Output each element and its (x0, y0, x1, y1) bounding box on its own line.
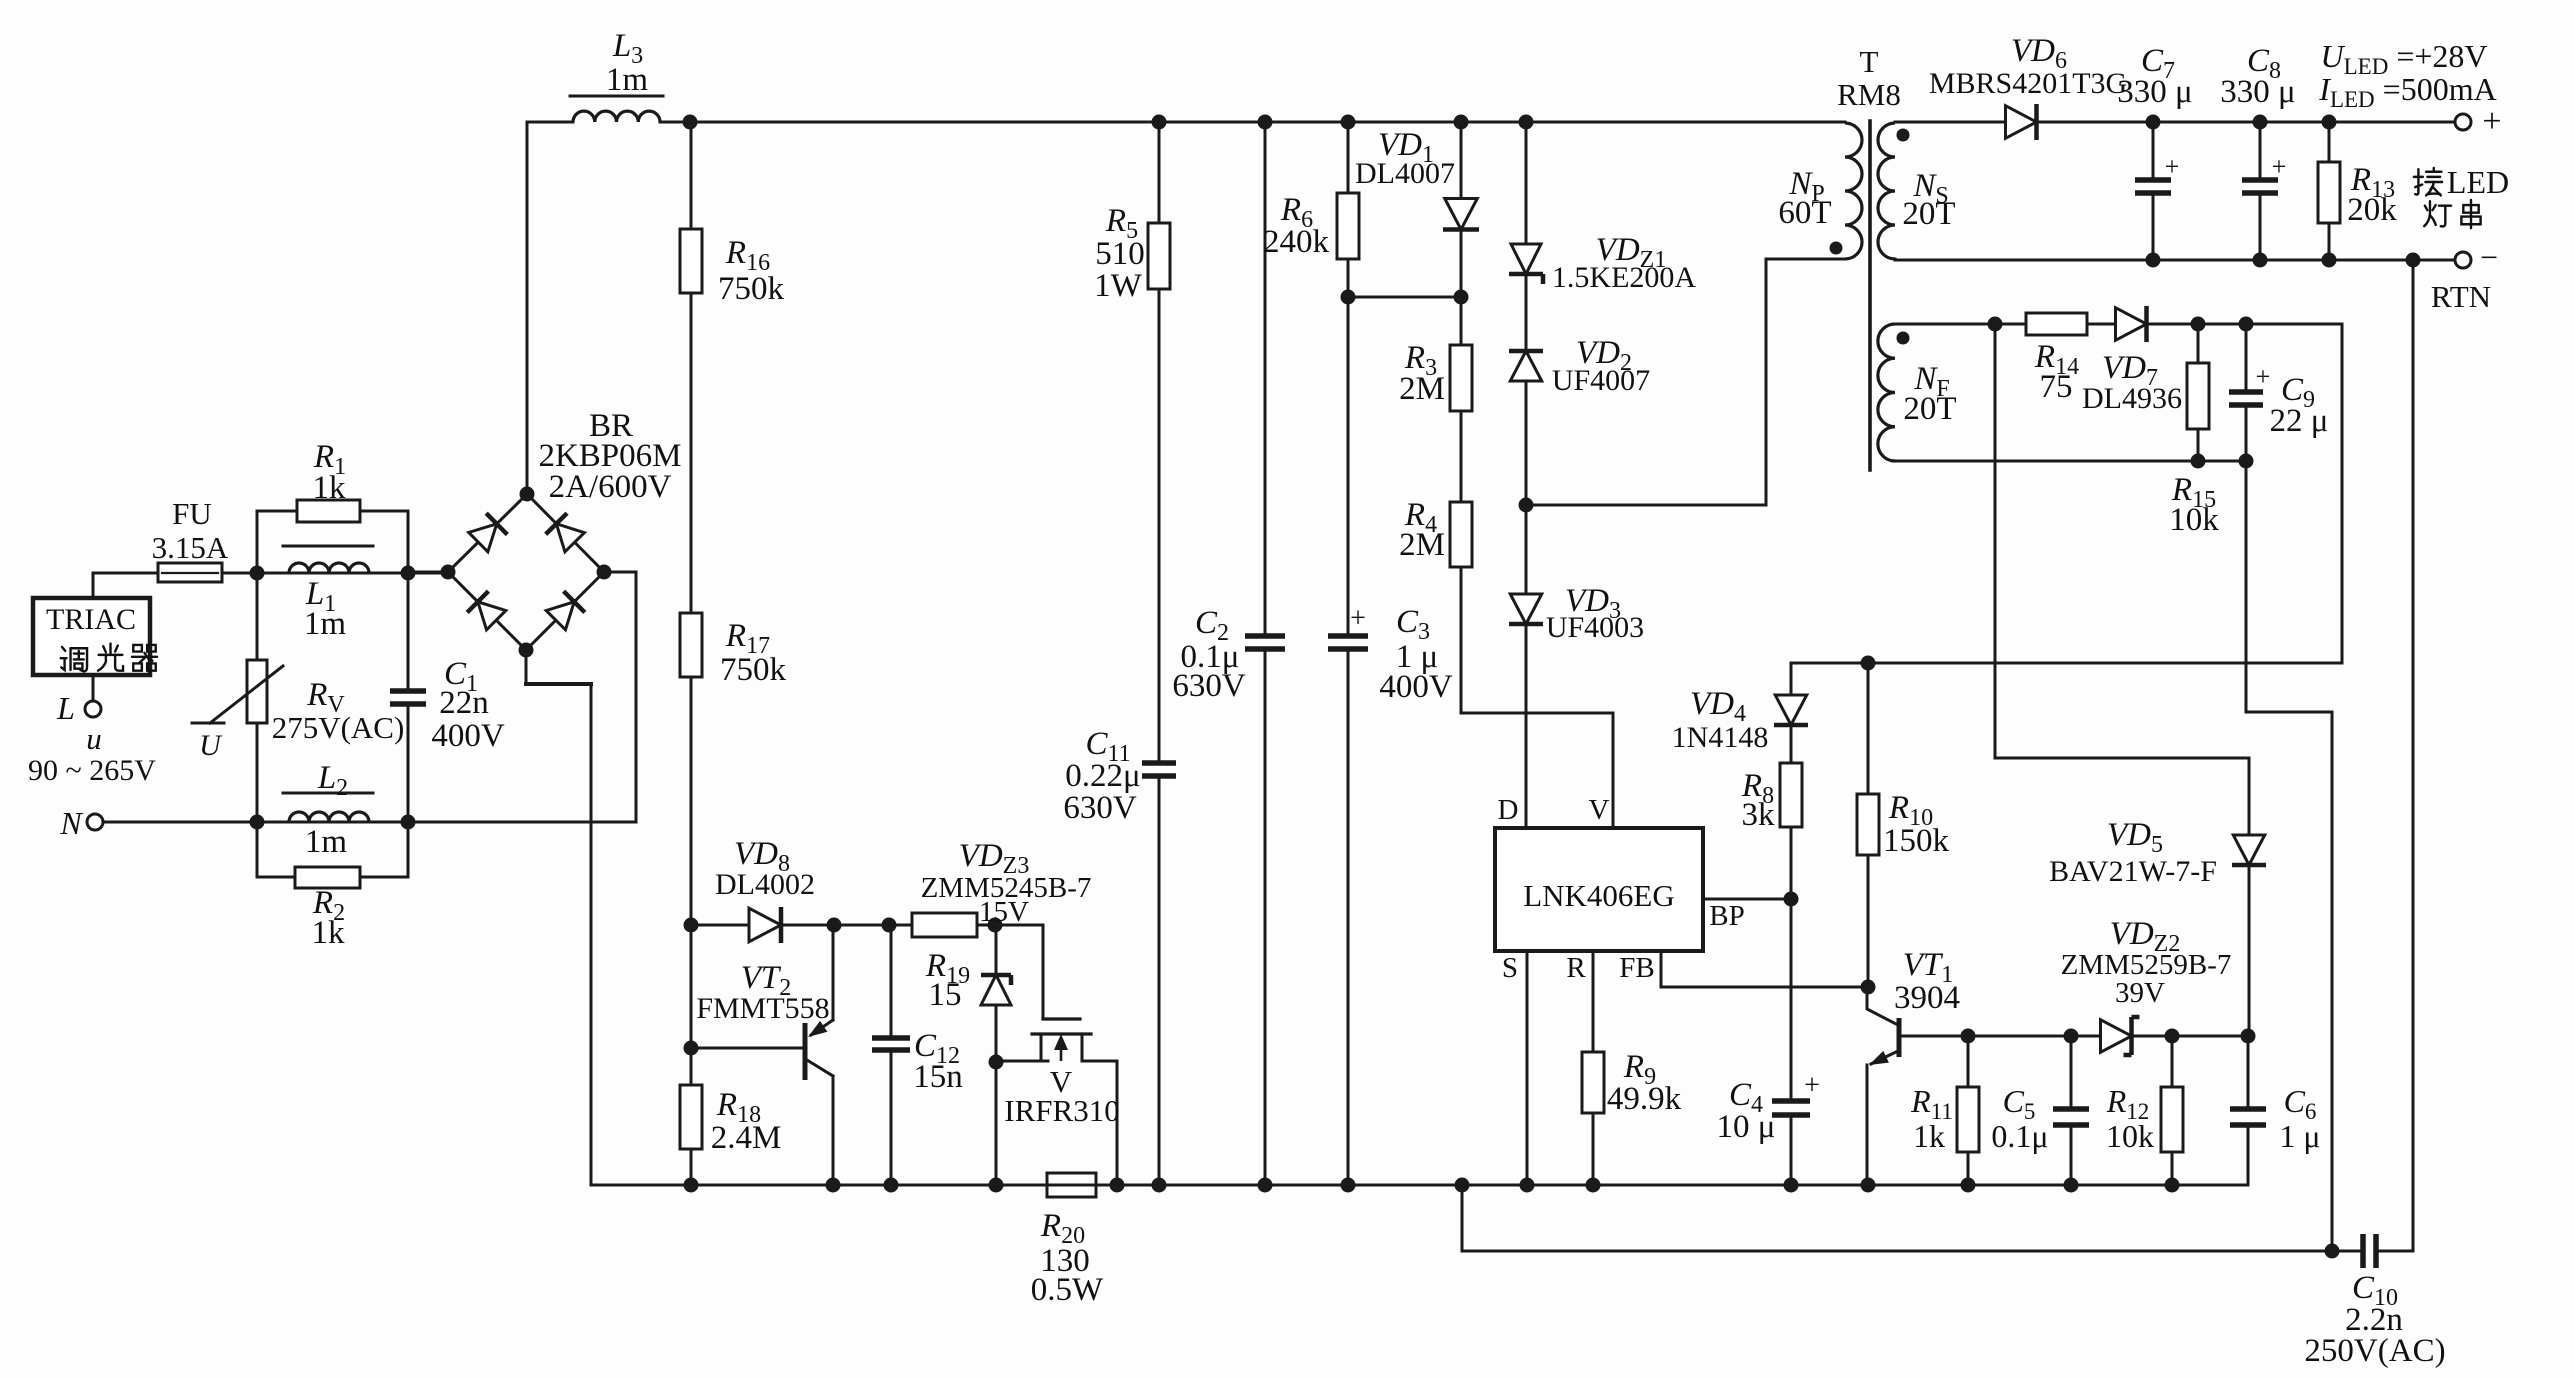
svg-text:20T: 20T (1903, 391, 1956, 427)
resistor R12 10k (2106, 1036, 2183, 1185)
svg-text:N: N (59, 805, 83, 841)
svg-text:IRFR310: IRFR310 (1004, 1093, 1119, 1128)
node A junction left (250, 566, 265, 581)
IC U1 LNK406EG (1495, 828, 1703, 951)
transistor VT2 FMMT558 (691, 925, 833, 1185)
svg-text:0.5W: 0.5W (1031, 1272, 1104, 1308)
svg-text:15: 15 (929, 977, 962, 1013)
wire bridge minus to ground rail (526, 650, 591, 1185)
svg-text:+: + (1804, 1070, 1820, 1101)
svg-text:1 μ: 1 μ (2279, 1118, 2320, 1154)
svg-text:BAV21W-7-F: BAV21W-7-F (2049, 855, 2217, 888)
zener VDZ1 1.5KE200A (1509, 122, 1696, 294)
label VDZ3 (921, 838, 1092, 928)
wire gate drive jog (995, 925, 1043, 1019)
svg-text:15n: 15n (913, 1059, 963, 1095)
label VT2 FMMT558 (696, 960, 829, 1025)
node FB junction (1861, 980, 1876, 995)
svg-text:LED: LED (2447, 164, 2509, 200)
wire R6-VD1 junction (1341, 290, 1469, 305)
wire R19 to zener node (977, 918, 1003, 933)
resistor R10 150k (1857, 663, 1950, 987)
capacitor C6 1u (2230, 1036, 2321, 1185)
resistor R11 1k (1910, 1036, 1979, 1185)
svg-text:750k: 750k (720, 652, 787, 688)
wire NP bottom lead (1766, 259, 1845, 505)
wire R16-R17 (690, 293, 693, 613)
wire BP pin (1703, 892, 1799, 907)
svg-text:2.4M: 2.4M (711, 1120, 782, 1156)
svg-text:49.9k: 49.9k (1607, 1081, 1682, 1117)
wire S pin to ground (1526, 951, 1529, 1185)
node VD8 junction (684, 918, 699, 933)
svg-text:1N4148: 1N4148 (1672, 721, 1769, 754)
svg-text:1W: 1W (1094, 268, 1143, 304)
svg-text:1.5KE200A: 1.5KE200A (1552, 261, 1696, 294)
capacitor C10 2.2n 250V (2304, 1234, 2445, 1369)
svg-text:15V: 15V (979, 896, 1029, 928)
node output minus terminal (2455, 239, 2498, 275)
svg-text:22n: 22n (439, 685, 489, 721)
svg-text:FMMT558: FMMT558 (696, 992, 829, 1025)
svg-text:2M: 2M (1399, 527, 1445, 563)
capacitor C2 0.1u 630V (1172, 122, 1285, 1185)
svg-text:150k: 150k (1883, 823, 1950, 859)
capacitor C7 330u (2117, 43, 2192, 260)
svg-text:0.22μ: 0.22μ (1065, 758, 1140, 794)
TRIAC dimmer box (33, 598, 157, 675)
svg-text:0.1μ: 0.1μ (1991, 1118, 2048, 1154)
capacitor C5 0.1u (1991, 1036, 2089, 1185)
wire VD7 out to feedback line (2149, 317, 2342, 664)
varistor RV 275V (192, 660, 404, 762)
svg-text:+: + (2256, 362, 2271, 391)
svg-text:330 μ: 330 μ (2220, 74, 2295, 110)
diode VD7 DL4936 (2082, 306, 2182, 415)
mosfet V IRFR310 (996, 1019, 1117, 1185)
svg-text:MBRS4201T3G: MBRS4201T3G (1929, 67, 2127, 100)
svg-text:DL4002: DL4002 (715, 868, 815, 901)
wire NS bottom to output minus (1895, 253, 2455, 268)
svg-text:39V: 39V (2115, 977, 2165, 1009)
wire NF top lead (1895, 317, 2026, 332)
label V IRFR310 (1004, 1064, 1119, 1128)
capacitor C11 0.22u 630V (1063, 289, 1176, 1185)
capacitor C3 1u 400V (1328, 297, 1453, 1185)
wire lower return line (1462, 1185, 2332, 1251)
svg-text:1m: 1m (304, 606, 347, 642)
svg-text:510: 510 (1095, 236, 1145, 272)
wire left EMI column (256, 511, 259, 822)
label u input voltage (28, 721, 156, 787)
svg-text:RTN: RTN (2431, 279, 2491, 314)
svg-text:FU: FU (172, 496, 212, 531)
wire bridge plus to top rail (526, 122, 529, 494)
svg-text:330 μ: 330 μ (2117, 74, 2192, 110)
svg-text:+: + (1350, 603, 1366, 634)
diode VD1 DL4007 (1355, 122, 1479, 297)
resistor R20 130 0.5W (1031, 1173, 1104, 1308)
wire R8 to BP to C4 (1790, 827, 1793, 1098)
node L terminal (56, 675, 101, 726)
pin labels D V S R FB BP (1498, 794, 1745, 984)
svg-text:630V: 630V (1172, 668, 1246, 704)
wire N line (250, 572, 637, 830)
svg-text:S: S (1502, 952, 1518, 984)
svg-text:T: T (1860, 44, 1879, 79)
svg-text:20T: 20T (1902, 196, 1955, 232)
winding NP 60T (1778, 123, 1862, 259)
wire feedback supply line (1791, 656, 2342, 671)
svg-text:RM8: RM8 (1837, 77, 1901, 112)
svg-text:LNK406EG: LNK406EG (1523, 878, 1675, 913)
winding NS 20T (1878, 123, 1956, 259)
svg-text:20k: 20k (2347, 192, 2397, 228)
svg-text:FB: FB (1619, 952, 1654, 984)
bridge rectifier BR 2KBP06M (441, 487, 612, 658)
resistor R6 240k (1263, 122, 1359, 297)
resistor R2 1k (257, 822, 408, 951)
resistor R17 750k (680, 613, 787, 688)
wire R4 to V pin (1461, 567, 1613, 828)
wire NF top feed down (1994, 324, 1997, 758)
svg-text:3.15A: 3.15A (152, 530, 229, 565)
inductor L2 1m (283, 760, 373, 860)
zener VDZ2 ZMM5259B-7 39V (2101, 1017, 2256, 1055)
resistor R9 49.9k (1582, 951, 1682, 1185)
wire RTN column (2412, 260, 2415, 1251)
zener diode VDZ3 ZMM5245B-7 15V (981, 925, 1011, 1185)
svg-text:630V: 630V (1063, 790, 1137, 826)
transformer T RM8 core (1837, 44, 1901, 470)
svg-text:240k: 240k (1263, 224, 1330, 260)
svg-text:+: + (2482, 103, 2501, 140)
svg-text:UF4003: UF4003 (1546, 611, 1644, 644)
resistor R18 2.4M (680, 1085, 781, 1185)
diode VD2 UF4007 (1509, 274, 1650, 397)
svg-text:400V: 400V (1379, 669, 1453, 705)
wire NF bottom lead (1895, 454, 2254, 469)
svg-text:10k: 10k (2169, 502, 2219, 538)
svg-text:60T: 60T (1778, 195, 1831, 231)
node N terminal (59, 805, 257, 841)
svg-text:u: u (86, 721, 102, 756)
svg-text:10k: 10k (2106, 1118, 2154, 1154)
capacitor C1 22n 400V (390, 573, 505, 822)
svg-text:UF4007: UF4007 (1552, 364, 1650, 397)
wire FB pin to VT1 (1661, 951, 1867, 987)
resistor R16 750k (680, 122, 785, 307)
wire TRIAC to fuse (93, 573, 158, 598)
diode VD3 UF4003 (1509, 505, 1644, 828)
svg-text:1k: 1k (313, 470, 347, 506)
diode VD4 1N4148 (1672, 663, 1808, 754)
wire primary ground rail (591, 1178, 2248, 1193)
label connect LED string (2414, 164, 2509, 228)
svg-text:L: L (56, 690, 75, 726)
fuse FU 3.15A (152, 496, 257, 582)
wire VD8 out node (827, 918, 913, 933)
svg-text:750k: 750k (718, 271, 785, 307)
resistor R15 10k (2169, 324, 2219, 538)
svg-text:1k: 1k (1913, 1118, 1945, 1154)
diode VD5 BAV21W-7-F (1995, 758, 2266, 1036)
capacitor C8 330u (2220, 43, 2295, 260)
svg-text:U: U (199, 729, 223, 762)
svg-text:10 μ: 10 μ (1717, 1109, 1776, 1145)
svg-text:+: + (2272, 152, 2287, 181)
transistor VT1 3904 (1867, 987, 1968, 1185)
svg-text:−: − (2480, 239, 2498, 275)
inductor L1 1m (257, 546, 448, 642)
winding NF 20T (1878, 324, 1957, 461)
wire bridge left vertex to L1 (408, 571, 448, 574)
label VDZ2 (2061, 916, 2232, 1009)
wire VDZ2 node line (1961, 1029, 2102, 1044)
wire R17 to VD8 node (690, 677, 693, 925)
svg-text:3904: 3904 (1894, 980, 1960, 1016)
svg-text:2M: 2M (1399, 371, 1445, 407)
svg-text:275V(AC): 275V(AC) (272, 710, 405, 745)
diode VD8 DL4002 (691, 836, 834, 943)
inductor L3 1m (527, 28, 663, 122)
svg-text:TRIAC: TRIAC (46, 603, 136, 636)
capacitor C4 10u (1717, 1070, 1820, 1185)
resistor R19 15 (912, 913, 977, 1013)
wire base node (684, 925, 699, 1085)
svg-text:90 ~ 265V: 90 ~ 265V (28, 754, 156, 787)
svg-text:DL4936: DL4936 (2082, 382, 2182, 415)
svg-text:250V(AC): 250V(AC) (2304, 1333, 2445, 1369)
svg-text:22 μ: 22 μ (2270, 403, 2329, 439)
svg-text:1m: 1m (606, 62, 649, 98)
resistor R1 1k (257, 439, 408, 522)
label ULED ILED (2318, 38, 2496, 112)
resistor R3 2M (1399, 297, 1472, 411)
wire main HV top rail (660, 115, 1845, 130)
node output plus terminal (2455, 103, 2502, 140)
label VT1 3904 (1894, 947, 1960, 1016)
diode VD6 MBRS4201T3G (1895, 33, 2455, 140)
wire clamp node to NP (1519, 259, 1846, 513)
capacitor C12 15n (872, 925, 963, 1185)
resistor R8 3k (1741, 726, 1802, 833)
resistor R14 75 (2026, 313, 2087, 405)
svg-text:2A/600V: 2A/600V (549, 469, 672, 505)
svg-text:+: + (2165, 152, 2180, 181)
svg-text:R: R (1566, 952, 1586, 984)
svg-text:75: 75 (2040, 369, 2073, 405)
svg-text:3k: 3k (1742, 797, 1776, 833)
wire R1 right lead (401, 511, 416, 581)
resistor R13 20k (2318, 122, 2397, 260)
wire NF return to C10 (2246, 461, 2332, 1251)
svg-text:400V: 400V (431, 718, 505, 754)
svg-text:1k: 1k (312, 915, 346, 951)
svg-text:V: V (1589, 794, 1610, 826)
capacitor C9 22u (2229, 324, 2328, 461)
label BR 2KBP06M 2A/600V (538, 408, 681, 505)
svg-text:1m: 1m (305, 824, 348, 860)
resistor R5 510 1W (1094, 122, 1170, 304)
svg-text:DL4007: DL4007 (1355, 157, 1455, 190)
label RTN (2431, 279, 2491, 314)
svg-text:D: D (1498, 794, 1519, 826)
svg-text:BP: BP (1709, 900, 1744, 932)
resistor R4 2M (1399, 411, 1472, 567)
